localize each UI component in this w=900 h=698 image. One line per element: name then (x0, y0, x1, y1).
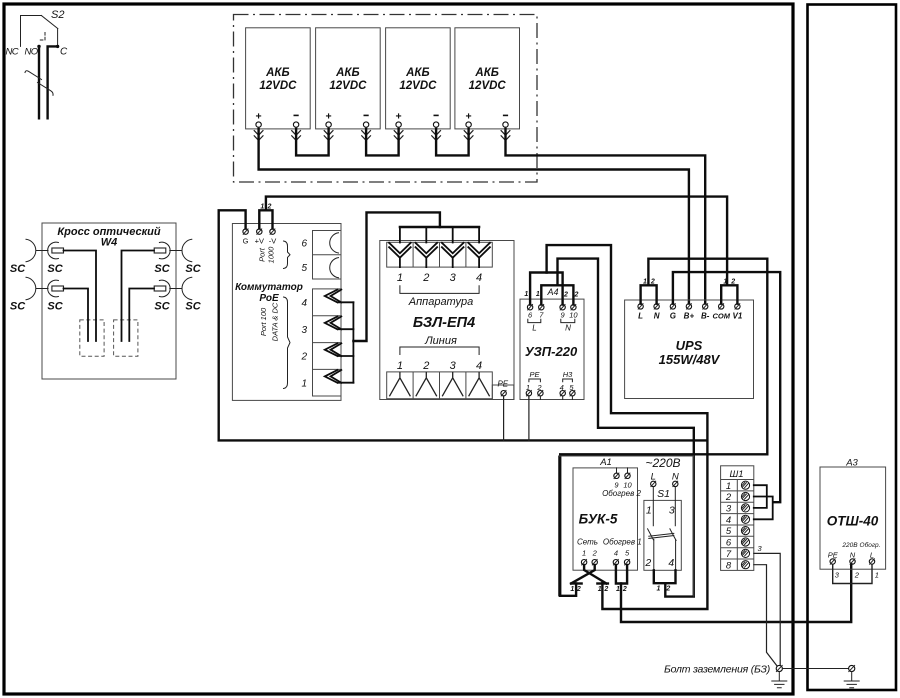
svg-text:Port: Port (258, 247, 267, 262)
svg-text:~220В: ~220В (645, 456, 680, 470)
БУК-5 control unit (573, 468, 642, 570)
svg-text:COM: COM (712, 312, 730, 321)
fiber pigtail 1 (64, 251, 97, 342)
svg-text:G: G (670, 312, 676, 321)
ШП row 8 (726, 560, 750, 571)
svg-text:Обогрев 1: Обогрев 1 (603, 538, 642, 547)
jumper t6-t9 (530, 273, 563, 305)
wire PoE power cable to UPS COM/V1 (266, 197, 727, 285)
УЗП bottom terminal 5 (569, 383, 575, 400)
pole 1-2 (648, 487, 654, 571)
БУК terminal 2 (592, 549, 598, 570)
svg-text:1: 1 (582, 549, 586, 558)
port 100 connector box (300, 289, 341, 396)
svg-text:А4: А4 (547, 287, 559, 297)
wire bundle to БЗЛ (353, 212, 440, 341)
БЗЛ PE box (492, 385, 514, 400)
УЗП bottom terminal 4 (560, 383, 566, 400)
cable B УЗП to S1 (558, 259, 694, 597)
PoE port chevron y=356.0 (325, 343, 342, 356)
svg-text:3: 3 (669, 505, 675, 517)
svg-text:1: 1 (616, 586, 620, 593)
circuit breaker S1 (644, 487, 681, 571)
ШП row 1 (726, 481, 750, 492)
ground symbol (772, 672, 787, 688)
svg-text:NO: NO (25, 47, 39, 58)
svg-text:6: 6 (301, 239, 307, 250)
БУК terminal 4 (613, 549, 618, 570)
PoE +V/-V cable bracket (259, 210, 272, 228)
БУК terminal 5 (624, 549, 630, 570)
svg-text:4: 4 (476, 272, 482, 284)
ШП row 5 (726, 526, 750, 537)
svg-text:B-: B- (701, 312, 710, 321)
Сеть left cable bracket (571, 582, 582, 584)
svg-text:+: + (256, 111, 262, 123)
PoE terminal G (243, 229, 249, 246)
svg-text:Коммутатор: Коммутатор (235, 282, 303, 293)
БЗЛ PE terminal (501, 391, 506, 396)
svg-text:Н3: Н3 (563, 370, 573, 379)
svg-text:5: 5 (726, 526, 732, 537)
S1 L terminal (651, 481, 656, 486)
svg-text:1: 1 (397, 360, 403, 372)
БЗЛ line-side connector row (387, 372, 493, 399)
PoE terminal +V (255, 229, 264, 246)
wire C stub (57, 29, 59, 47)
wire PoE G to ground bus (219, 210, 707, 440)
svg-text:W4: W4 (101, 237, 118, 249)
wire C down (48, 46, 58, 118)
svg-text:1: 1 (875, 571, 879, 580)
svg-text:2: 2 (422, 360, 429, 372)
terminal GB3+ (394, 111, 403, 141)
Port 100 brace (284, 297, 291, 389)
node NO (37, 45, 40, 48)
terminal GB1- (292, 115, 301, 140)
svg-text:+: + (466, 111, 472, 123)
svg-text:6: 6 (726, 538, 732, 549)
БЗЛ line connector x=426.3 (416, 372, 437, 396)
switch arm (41, 16, 57, 29)
svg-text:L: L (532, 324, 536, 333)
svg-text:155W/48V: 155W/48V (659, 352, 721, 367)
svg-text:SC: SC (154, 301, 170, 313)
wire link GB2- GB3+ (366, 129, 399, 156)
svg-text:SC: SC (185, 263, 201, 275)
fiber pigtail 2 (64, 289, 89, 342)
ШП jumper rows1-3 (754, 485, 767, 508)
svg-text:1: 1 (657, 586, 661, 593)
UPS terminal B+ (684, 304, 695, 321)
ground symbol (844, 672, 859, 688)
БЗЛ-ЕП4 line protection unit (380, 241, 514, 400)
battery GB2 АКБ 12VDC (316, 28, 381, 129)
wire port bundle bus (352, 302, 354, 382)
pole 3-4 (670, 487, 676, 571)
terminal GB4- (501, 115, 510, 140)
ОТШ terminal L (869, 559, 874, 564)
wire UPS G to ШП ground rows (673, 272, 780, 502)
SC connector right row y=288.5 (154, 277, 192, 299)
wire link GB1- GB2+ (296, 129, 329, 156)
ОТШ terminal N (850, 559, 855, 564)
УЗП bottom terminal 2 (536, 383, 543, 400)
terminal GB1+ (254, 111, 263, 141)
svg-text:2: 2 (644, 557, 651, 569)
svg-text:РоЕ: РоЕ (259, 293, 279, 304)
ground bolt (panel) (844, 665, 859, 687)
wire link GB3- GB4+ (436, 129, 469, 156)
БУК terminal 10 (Обогрев 2) (623, 468, 632, 490)
svg-text:2: 2 (854, 571, 860, 580)
svg-text:Болт заземления (БЗ): Болт заземления (БЗ) (664, 664, 770, 676)
УЗП terminal 10 (569, 305, 578, 320)
PoE port chevron y=329.2 (325, 317, 342, 330)
svg-text:DATA & DC: DATA & DC (271, 302, 280, 341)
battery GB4 АКБ 12VDC (455, 28, 520, 129)
right panel frame (808, 5, 897, 691)
wire port to bundle (339, 328, 354, 330)
PoE port chevron y=382.7 (325, 370, 342, 383)
svg-text:1: 1 (646, 505, 652, 517)
bracket PE pair (529, 379, 541, 382)
svg-text:БУК-5: БУК-5 (579, 512, 618, 527)
battery GB3 АКБ 12VDC (386, 28, 451, 129)
ОТШ terminal PE (830, 559, 835, 564)
svg-text:N: N (654, 312, 660, 321)
bracket Н3 pair (563, 379, 573, 382)
svg-text:7: 7 (726, 549, 732, 560)
SC connector right row y=250.5 (154, 239, 192, 261)
svg-text:А1: А1 (599, 457, 612, 468)
БУК Обогрев1 cable bracket (616, 565, 627, 584)
svg-text:АКБ: АКБ (405, 67, 430, 79)
UPS terminal COM (712, 304, 730, 321)
svg-text:1: 1 (570, 586, 574, 593)
svg-text:L: L (870, 551, 874, 560)
wire UPS L/N cable to БУК Сеть (560, 259, 767, 596)
svg-text:3: 3 (450, 272, 457, 284)
svg-text:12VDC: 12VDC (399, 80, 437, 92)
svg-text:12VDC: 12VDC (259, 80, 297, 92)
svg-text:2: 2 (665, 586, 670, 593)
БЗЛ line connector x=479.1 (469, 372, 490, 396)
БУК Сеть cross wiring (571, 565, 606, 584)
node C (56, 45, 59, 48)
bracket Линия (400, 347, 479, 355)
UPS 155W/48V (625, 300, 754, 399)
svg-text:NC: NC (6, 47, 19, 58)
svg-text:4: 4 (301, 298, 307, 309)
svg-text:2: 2 (622, 586, 627, 593)
bracket t7-t10 (541, 285, 573, 304)
БЗЛ equipment-side connector row (387, 242, 493, 267)
svg-text:10: 10 (623, 481, 632, 490)
svg-text:UPS: UPS (676, 338, 703, 353)
svg-text:B+: B+ (684, 312, 695, 321)
svg-text:G: G (243, 237, 249, 246)
wire ШП row8 to ground bolt (754, 565, 777, 666)
UPS COM/V1 cable bracket (721, 285, 737, 303)
svg-text:12VDC: 12VDC (469, 80, 507, 92)
svg-text:SC: SC (10, 301, 26, 313)
PoE terminal -V (269, 229, 277, 246)
ШП jumper rows2-4 (754, 497, 773, 520)
svg-text:2: 2 (576, 586, 581, 593)
UPS L/N cable bracket (641, 285, 657, 303)
svg-text:S1: S1 (657, 488, 670, 500)
svg-text:РЕ: РЕ (529, 370, 540, 379)
bracket L (6,7) (528, 319, 541, 322)
terminal GB2+ (324, 111, 333, 141)
port 1000 connector box (301, 231, 341, 280)
ОТШ-40 heater unit (820, 467, 886, 569)
svg-text:SC: SC (154, 263, 170, 275)
splice cassette 1 (dashed) (80, 320, 104, 356)
cable tick mark (25, 71, 53, 96)
svg-text:1000: 1000 (267, 246, 276, 264)
svg-text:10: 10 (569, 311, 578, 320)
svg-text:Обогр.: Обогр. (860, 541, 881, 549)
БЗЛ equipment connector x=399.9 (389, 243, 411, 267)
svg-text:АКБ: АКБ (265, 67, 290, 79)
УЗП-220 surge protector (520, 299, 584, 399)
svg-text:БЗЛ-ЕП4: БЗЛ-ЕП4 (413, 315, 475, 331)
svg-text:C: C (60, 47, 68, 58)
БЗЛ line connector x=399.9 (389, 372, 410, 396)
wire УЗП PE to ground bus (528, 396, 530, 441)
wire port to bundle (339, 355, 354, 357)
cable A УЗП to БУК net (547, 245, 708, 609)
fiber pigtail 3 (122, 251, 155, 342)
UPS terminal N (654, 304, 660, 321)
wire NC top (21, 16, 42, 47)
svg-text:2: 2 (300, 352, 307, 363)
svg-text:Аппаратура: Аппаратура (408, 296, 473, 308)
svg-text:+V: +V (255, 237, 264, 246)
УЗП bottom terminal 1 (526, 383, 532, 400)
Сеть right cable bracket (597, 582, 608, 584)
БЗЛ line connector x=452.7 (442, 372, 463, 396)
wire battery1+ to UPS B+ (259, 129, 689, 304)
svg-text:1: 1 (723, 279, 727, 286)
svg-text:4: 4 (476, 360, 482, 372)
battery enclosure (dash-dot) (234, 15, 538, 183)
terminal GB2- (362, 115, 371, 140)
ШП row 7 (726, 549, 750, 560)
svg-text:8: 8 (726, 560, 732, 571)
БЗЛ equipment connector x=452.7 (442, 243, 464, 267)
svg-text:ОТШ-40: ОТШ-40 (827, 514, 879, 529)
БЗЛ equipment connector x=479.1 (468, 243, 490, 267)
ШП row 2 (725, 492, 750, 503)
ШП row 4 (726, 515, 750, 526)
svg-text:1: 1 (301, 378, 307, 389)
ОТШ PE/L cable bracket (833, 564, 872, 583)
PoE switch unit (232, 224, 341, 401)
БУК terminal 9 (Обогрев 2) (614, 468, 620, 490)
UPS terminal G (670, 304, 676, 321)
УЗП terminal 9 (560, 305, 566, 320)
fiber pigtail 4 (129, 289, 154, 342)
svg-text:УЗП-220: УЗП-220 (525, 344, 578, 359)
УЗП terminal 7 (539, 305, 545, 320)
SC connector left row y=250.5 (26, 239, 64, 261)
svg-text:-V: -V (269, 237, 277, 246)
terminal GB3- (432, 115, 441, 140)
БЗЛ harness bus (400, 226, 479, 228)
svg-text:Port 100: Port 100 (259, 307, 268, 336)
svg-text:2: 2 (730, 279, 735, 286)
svg-text:4: 4 (726, 515, 731, 526)
svg-text:1: 1 (524, 291, 528, 298)
svg-text:Ш1: Ш1 (729, 469, 743, 480)
Port 1000 brace (284, 241, 291, 269)
svg-text:2: 2 (725, 492, 732, 503)
SC connector left row y=288.5 (26, 277, 64, 299)
svg-text:Сеть: Сеть (577, 538, 598, 547)
svg-text:5: 5 (301, 263, 307, 274)
svg-text:4: 4 (668, 557, 674, 569)
wire Обогрев1 cable to ОТШ-40 (621, 564, 851, 622)
bracket N (9,10) (561, 319, 575, 322)
svg-text:SC: SC (47, 301, 63, 313)
UPS terminal L (638, 304, 643, 321)
БЗЛ equipment connector x=426.3 (416, 243, 438, 267)
wire bolt to bolt (782, 668, 848, 670)
wire NO down (38, 46, 40, 118)
svg-text:1: 1 (397, 272, 403, 284)
svg-text:2: 2 (603, 586, 608, 593)
svg-text:SC: SC (185, 301, 201, 313)
switch S2 (6, 9, 69, 118)
УЗП terminal 6 (527, 305, 533, 320)
svg-text:PE: PE (828, 551, 839, 560)
wire battery4- to UPS B- (506, 129, 706, 304)
optical port 5 arc (330, 258, 339, 278)
svg-text:1: 1 (536, 291, 540, 298)
svg-text:12VDC: 12VDC (329, 80, 367, 92)
S1 output cable bracket (654, 570, 676, 583)
svg-text:N: N (565, 324, 571, 333)
battery GB1 АКБ 12VDC (246, 28, 311, 129)
linkage bar (649, 533, 674, 538)
svg-text:L: L (638, 312, 643, 321)
svg-text:1: 1 (726, 481, 731, 492)
splice cassette 2 (dashed) (114, 320, 138, 356)
svg-text:2: 2 (592, 549, 598, 558)
NO dashed contact (39, 33, 45, 41)
ШП row separators (721, 491, 754, 559)
svg-text:АКБ: АКБ (474, 67, 499, 79)
svg-text:+: + (326, 111, 332, 123)
svg-text:1: 1 (643, 279, 647, 286)
terminal strip Ш1 box (721, 466, 754, 571)
БУК terminal 1 (581, 549, 586, 570)
svg-text:220В: 220В (841, 542, 858, 549)
wire ШП row7 to ground bolt (754, 553, 780, 665)
svg-text:Обогрев 2: Обогрев 2 (602, 489, 641, 498)
svg-text:V1: V1 (733, 312, 743, 321)
UPS terminal B- (701, 304, 710, 321)
svg-text:Линия: Линия (424, 335, 457, 347)
PoE port chevron y=302.3 (325, 290, 342, 303)
optical port 6 arc (330, 233, 339, 253)
svg-text:3: 3 (726, 504, 732, 515)
svg-text:АКБ: АКБ (335, 67, 360, 79)
terminal GB4+ (464, 111, 473, 141)
svg-text:3: 3 (301, 325, 307, 336)
svg-text:PE: PE (497, 380, 508, 389)
ground bolt БЗ (cabinet) (772, 665, 787, 687)
S1 N terminal (673, 481, 678, 486)
wire БЗЛ PE to ground bus (503, 396, 505, 441)
svg-text:S2: S2 (51, 9, 64, 21)
svg-text:4: 4 (614, 549, 618, 558)
svg-text:SC: SC (10, 263, 26, 275)
svg-text:+: + (396, 111, 402, 123)
enclosure A1 (559, 456, 694, 597)
svg-text:3: 3 (450, 360, 457, 372)
svg-text:1: 1 (598, 586, 602, 593)
svg-text:2: 2 (650, 279, 655, 286)
UPS terminal V1 (733, 304, 743, 321)
ШП row 3 (726, 504, 750, 515)
wire port to bundle (339, 382, 354, 384)
svg-text:SC: SC (47, 263, 63, 275)
harness drops (400, 227, 479, 243)
optical cross W4 (42, 223, 176, 379)
wire port to bundle (339, 301, 354, 303)
bracket Аппаратура (400, 286, 479, 294)
svg-text:2: 2 (422, 272, 429, 284)
ШП row 6 (726, 538, 750, 549)
